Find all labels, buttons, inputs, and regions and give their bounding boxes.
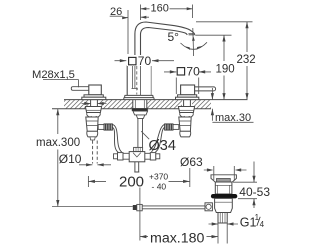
- dim 40-53: [253, 162, 255, 209]
- dim 190 extension line: [195, 34, 231, 36]
- right ball nut: [180, 131, 191, 137]
- right hose: [151, 124, 164, 151]
- counter top line: [64, 99, 248, 101]
- left mounting nut: [85, 107, 101, 113]
- G1 1/4 dim: [209, 223, 239, 244]
- dim 40-53 extension lines: [233, 182, 257, 199]
- tee mixer stem: [134, 162, 139, 172]
- svg-text:232: 232: [237, 54, 256, 66]
- spout column: [127, 65, 151, 95]
- right valve base plate: [176, 95, 199, 100]
- svg-text:70: 70: [186, 64, 200, 78]
- svg-text:max.300: max.300: [36, 137, 80, 149]
- svg-text:+370: +370: [149, 172, 168, 182]
- dim 190 line: [223, 35, 225, 100]
- tee mixer right tip: [156, 154, 160, 159]
- left valve lever: [71, 87, 90, 91]
- tee mixer left port: [118, 153, 124, 160]
- left hose: [112, 124, 121, 152]
- M28 leader: [43, 80, 78, 88]
- left collar: [87, 113, 100, 118]
- right collar: [180, 113, 193, 118]
- Ø63 dim: [204, 166, 247, 180]
- label square70 spout: [127, 55, 151, 66]
- center supply pipe: [138, 118, 143, 147]
- svg-text:Ø10: Ø10: [59, 152, 82, 166]
- tee collar: [134, 147, 143, 151]
- left shank arrows: [82, 103, 107, 105]
- pop-up knob: [133, 205, 137, 210]
- Ø34 leader: [141, 131, 149, 139]
- svg-text:max.180: max.180: [150, 230, 205, 246]
- 5 degree swing arc: [181, 42, 208, 49]
- max.300 dim line: [57, 109, 59, 207]
- 5 degree tilt line: [192, 28, 195, 56]
- drain neck: [215, 182, 232, 194]
- svg-text:max.30: max.30: [215, 112, 251, 124]
- dim 200: [88, 168, 189, 187]
- left valve shank: [91, 100, 98, 109]
- tee mixer left pipe: [123, 153, 129, 159]
- spout tube and bend: [135, 22, 195, 65]
- Ø10 arrows: [79, 164, 111, 166]
- left ball nut: [87, 131, 98, 137]
- max.180 dim: [140, 188, 218, 241]
- drain plug cap: [217, 179, 231, 183]
- Ø10 dashed pipe: [93, 141, 98, 164]
- pop-up rod: [142, 206, 206, 209]
- left check valve cone: [86, 117, 98, 131]
- dim 232 extension line: [196, 21, 253, 23]
- center adapter: [136, 115, 145, 119]
- label square70 right valve: [177, 68, 184, 75]
- center dark collar: [132, 108, 148, 111]
- svg-text:70: 70: [138, 54, 152, 68]
- tee mixer right port: [150, 153, 156, 160]
- right hose connector stub: [173, 125, 179, 130]
- svg-text:5°: 5°: [168, 30, 180, 44]
- spout base plate: [124, 95, 154, 99]
- svg-text:40-53: 40-53: [239, 185, 270, 199]
- counter hatch: [56, 96, 223, 110]
- drain tailpiece: [218, 213, 227, 224]
- svg-text:Ø34: Ø34: [149, 138, 176, 154]
- svg-text:- 40: - 40: [152, 182, 167, 192]
- max.30 dim: [212, 88, 253, 122]
- svg-text:4: 4: [260, 220, 265, 229]
- bottom reference plane: [52, 206, 133, 208]
- svg-text:160: 160: [151, 2, 169, 14]
- rod knuckle: [205, 203, 212, 211]
- tee mixer body: [129, 152, 145, 162]
- counter bottom line: [52, 108, 211, 110]
- svg-text:Ø63: Ø63: [180, 155, 203, 169]
- tee mixer right pipe: [145, 153, 151, 159]
- dim 232 line: [246, 22, 248, 100]
- left valve base plate: [82, 95, 106, 100]
- right check valve cone: [179, 117, 191, 131]
- right mounting nut: [178, 107, 194, 113]
- drain body: [215, 198, 233, 212]
- center nut: [133, 111, 148, 115]
- left hose connector stub: [98, 125, 104, 130]
- right valve lever: [193, 87, 216, 91]
- right valve body: [181, 85, 195, 95]
- drain flange ring: [211, 194, 237, 198]
- svg-text:190: 190: [216, 64, 235, 76]
- drain top cup: [211, 175, 236, 182]
- center shank: [133, 100, 147, 109]
- right valve shank: [184, 100, 191, 109]
- left tip cap: [90, 137, 95, 140]
- tee mixer left tip: [114, 154, 118, 159]
- left valve body: [89, 85, 102, 95]
- spout tube inside column (hidden): [136, 66, 138, 95]
